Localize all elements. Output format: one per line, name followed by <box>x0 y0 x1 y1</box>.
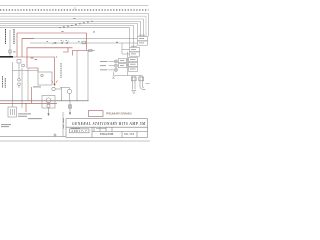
svg-text:ENGLISH: ENGLISH <box>99 132 114 136</box>
svg-text:29817-7: 29817-7 <box>72 129 88 133</box>
svg-text:06/99: 06/99 <box>124 132 135 136</box>
svg-text:GENERAL STATIONARY BITS AMP 5M: GENERAL STATIONARY BITS AMP 5M <box>72 122 146 126</box>
svg-text:PRELIMINARY DRAWING: PRELIMINARY DRAWING <box>106 112 132 116</box>
